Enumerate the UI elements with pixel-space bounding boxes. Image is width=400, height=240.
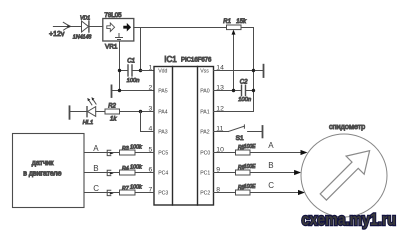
- svg-text:PA0: PA0: [200, 89, 210, 95]
- node pin2/gnd: [118, 89, 121, 92]
- svg-text:2: 2: [149, 84, 153, 91]
- speedometer: [301, 122, 387, 217]
- wire pin1: [141, 70, 155, 72]
- svg-text:+12v: +12v: [49, 31, 65, 38]
- wire sensor C row: [84, 192, 120, 194]
- IC right pin labels: [200, 69, 210, 197]
- IC left pin labels: [158, 69, 168, 197]
- resistor R2 1k: [96, 103, 154, 131]
- voltage regulator VR1 78L05: [103, 12, 134, 51]
- svg-text:PA5: PA5: [158, 89, 168, 95]
- wire R7 to pin7: [135, 192, 154, 194]
- svg-text:S1: S1: [236, 135, 244, 142]
- resistor R3 100k: [120, 145, 155, 156]
- svg-text:B: B: [268, 161, 273, 170]
- svg-text:R1: R1: [223, 19, 231, 25]
- wire R3 to pin5: [135, 152, 154, 154]
- svg-text:IC1: IC1: [164, 55, 177, 64]
- ground bar near HL1: [69, 106, 71, 119]
- ground bar near pin2: [111, 85, 113, 97]
- ground bar right of pin14: [263, 65, 265, 77]
- svg-text:15k: 15k: [236, 19, 247, 25]
- node C2 left: [232, 89, 235, 92]
- connector C: [107, 190, 113, 195]
- LED HL1: [70, 97, 97, 126]
- wire R1 right to ground rail: [241, 28, 254, 112]
- wire pin11: [214, 131, 229, 133]
- svg-text:1N4148: 1N4148: [73, 35, 92, 41]
- svg-text:Vss: Vss: [200, 69, 209, 75]
- LED cathode bar: [86, 107, 88, 117]
- svg-text:C: C: [268, 181, 274, 190]
- svg-text:PC0: PC0: [200, 151, 210, 157]
- svg-text:спидометр: спидометр: [329, 122, 365, 131]
- connector A: [107, 150, 113, 155]
- wiper wire: [233, 32, 235, 91]
- LED triangle: [88, 107, 96, 117]
- node C1 left: [118, 69, 121, 72]
- connector B: [107, 170, 113, 175]
- svg-text:PA1: PA1: [200, 110, 210, 116]
- svg-text:PA3: PA3: [158, 130, 168, 136]
- node C1 right: [139, 69, 142, 72]
- svg-text:A: A: [268, 141, 274, 150]
- resistor R7 100k: [120, 185, 155, 196]
- filled arrow (output): [123, 23, 131, 32]
- wire input: [53, 26, 81, 28]
- svg-text:cxema.my1.ru: cxema.my1.ru: [302, 210, 397, 229]
- resistor R4 100k: [120, 165, 155, 176]
- resistor R6 100E: [214, 164, 302, 175]
- input arrow: [63, 22, 70, 30]
- wire pin14 to ground: [214, 70, 264, 72]
- wire gnd to LED: [70, 111, 88, 113]
- svg-text:C1: C1: [127, 59, 135, 65]
- IC left pin numbers: [149, 64, 153, 193]
- svg-text:датчик: датчик: [32, 160, 55, 167]
- node Vss/R1: [252, 69, 255, 72]
- svg-text:PC1: PC1: [200, 171, 210, 177]
- IC right pin numbers: [216, 64, 224, 193]
- trimmer R1 15k: [223, 19, 253, 112]
- svg-text:100E: 100E: [244, 184, 256, 190]
- wire rail drop to pin1: [140, 28, 142, 71]
- ground symbol inside regulator: [116, 34, 123, 40]
- node C2 right: [252, 89, 255, 92]
- svg-text:A: A: [93, 144, 99, 153]
- svg-text:PC4: PC4: [158, 171, 168, 177]
- wire pin2 to ground: [112, 90, 155, 92]
- svg-text:PC3: PC3: [158, 191, 168, 197]
- +5V rail wire: [134, 27, 227, 29]
- svg-text:C: C: [93, 184, 99, 193]
- hollow arrow (input): [107, 23, 115, 32]
- node pin3/pin4: [139, 110, 142, 113]
- capacitor C2 100n: [214, 79, 254, 103]
- svg-text:VR1: VR1: [105, 43, 118, 50]
- +12v supply input: [49, 22, 82, 38]
- svg-text:PC2: PC2: [200, 191, 210, 197]
- svg-text:в двигателе: в двигателе: [23, 170, 61, 177]
- capacitor C1 100n: [120, 59, 141, 84]
- IC1 PIC16F676: [154, 55, 214, 205]
- lever: [228, 125, 244, 132]
- wire sensor A row: [84, 152, 120, 154]
- diode VD1 1N4148: [73, 15, 103, 40]
- svg-text:PC5: PC5: [158, 151, 168, 157]
- switch S1: [214, 125, 263, 142]
- wire R4 to pin6: [135, 172, 154, 174]
- wire pin12: [214, 111, 254, 113]
- svg-text:PA4: PA4: [158, 110, 168, 116]
- sensor box (датчик в двигателе): [13, 134, 85, 208]
- ground bar right of S1: [262, 126, 264, 137]
- svg-text:PIC16F676: PIC16F676: [181, 57, 212, 63]
- svg-text:C2: C2: [240, 79, 248, 85]
- wire LED to R2: [96, 111, 105, 113]
- resistor R5 100E: [214, 144, 308, 155]
- speedometer needle arrow: [314, 142, 378, 206]
- svg-text:1: 1: [149, 64, 153, 71]
- svg-text:100E: 100E: [244, 164, 256, 170]
- wire diode to regulator: [89, 26, 103, 28]
- svg-text:HL1: HL1: [83, 120, 94, 126]
- svg-text:PA2: PA2: [200, 130, 210, 136]
- wire R2 to pin3: [120, 111, 155, 113]
- svg-text:B: B: [93, 164, 98, 173]
- resistor R8 100E: [214, 184, 306, 195]
- wire node to pin4: [141, 112, 155, 132]
- fixed contact wire: [248, 131, 263, 133]
- svg-text:100E: 100E: [244, 144, 256, 150]
- svg-text:Vdd: Vdd: [158, 69, 167, 75]
- wire sensor B row: [84, 172, 120, 174]
- svg-text:100n: 100n: [238, 97, 251, 103]
- svg-text:100n: 100n: [127, 78, 140, 84]
- wire regulator ground down: [119, 41, 121, 91]
- LED emission arrows: [89, 99, 97, 105]
- svg-text:1k: 1k: [110, 117, 117, 123]
